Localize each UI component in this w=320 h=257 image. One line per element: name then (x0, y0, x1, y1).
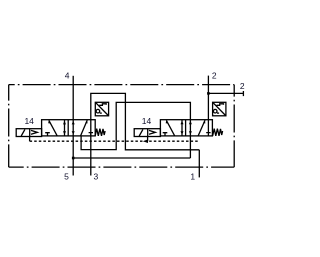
solenoid step glyph V2 (217, 104, 224, 106)
pilot stub valve V2 (147, 137, 149, 142)
valve V1 blocked port T right (89, 133, 93, 136)
valve V1 return spring (95, 129, 105, 136)
wire port 2 branch to right edge (208, 92, 243, 94)
valve V1 flow diagonal left square (49, 120, 57, 135)
solenoid circle glyph V1 (96, 109, 100, 113)
node junction port2 branch (207, 92, 210, 95)
pilot actuator box valve V2 (134, 129, 160, 137)
enclosure dash-dot boundary top (9, 84, 235, 86)
valve V1 position divider (67, 120, 69, 136)
pilot line dashed (30, 140, 200, 142)
valve V2 diagonal2 arrowhead (203, 120, 205, 123)
wire supply rect valve V1 (port1 riser) (91, 93, 200, 149)
valve V1 body (42, 120, 96, 136)
wire valve V2 pass line down to exhaust bus (189, 120, 191, 158)
pilot stub valve V1 (29, 137, 31, 142)
pilot slash V1 (21, 129, 25, 136)
wire port 2 vertical (into valve V2) (207, 76, 209, 133)
port 2 end tick (242, 91, 244, 96)
valve V2 blocked port T left (163, 133, 168, 136)
enclosure dash-dot boundary right (233, 85, 235, 168)
valve V1 blocked port T left (45, 133, 50, 136)
solenoid circle glyph V2 (213, 109, 217, 113)
svg-text:3: 3 (94, 171, 99, 181)
wire port 1 vertical (198, 150, 200, 178)
valve V2 body (160, 120, 212, 136)
solenoid pilot box valve V1 (95, 102, 108, 116)
valve V1 pass line arrowheads (72, 121, 75, 125)
pilot actuator box valve V1 (16, 129, 41, 137)
solenoid step glyph V1 (99, 104, 106, 106)
node junction exhaust bus on port5 line (72, 157, 75, 160)
enclosure dash-dot boundary bottom (9, 166, 235, 168)
svg-text:1: 1 (190, 171, 195, 181)
svg-text:2: 2 (212, 71, 217, 81)
svg-text:14: 14 (24, 116, 34, 126)
valve V2 blocked port T right (206, 133, 210, 136)
svg-text:4: 4 (65, 70, 70, 80)
solenoid pilot box valve V2 (213, 102, 226, 116)
pilot box divider V2 (147, 129, 149, 137)
pilot arrow V2 (149, 130, 155, 134)
solenoid box diagonal V2 (213, 103, 226, 116)
valve V1 diagonal2 arrowhead (85, 120, 87, 123)
pilot flow arrowhead (143, 139, 148, 143)
enclosure dash-dot boundary left (8, 85, 10, 168)
pilot arrow V1 (31, 130, 37, 134)
solenoid box diagonal V1 (96, 103, 109, 116)
wire exhaust bus B (73, 157, 190, 159)
valve V2 vertical flow arrow left square (181, 120, 183, 136)
wire valve V1 outlet to valve V2 top (81, 102, 190, 149)
svg-text:14: 14 (142, 116, 152, 126)
valve V2 return spring (213, 129, 223, 136)
valve V2 flow diagonal right square (198, 120, 205, 136)
pilot slash V2 (139, 129, 143, 136)
valve V2 position divider (185, 120, 187, 136)
wire port 4 vertical (through valve V1) (72, 76, 74, 176)
pilot box divider V1 (29, 129, 31, 137)
valve V2 flow diagonal left square (166, 120, 174, 135)
svg-text:2: 2 (240, 81, 245, 91)
svg-text:5: 5 (64, 171, 69, 181)
wire port 3 vertical from V1 blocked port (90, 120, 92, 176)
valve V1 diagonal arrowhead (48, 120, 51, 123)
valve V2 diagonal arrowhead (166, 120, 169, 123)
valve V1 vertical flow arrow left square (64, 120, 66, 136)
valve V1 flow diagonal right square (81, 120, 88, 136)
valve V2 pass line arrowheads (189, 121, 192, 125)
